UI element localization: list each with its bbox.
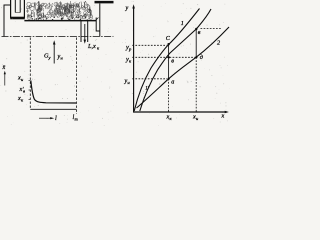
svg-text:в: в [23, 89, 25, 94]
svg-text:в: в [198, 29, 201, 36]
svg-text:р: р [128, 46, 132, 51]
svg-text:x: x [221, 113, 225, 120]
svg-text:x̄: x̄ [2, 64, 6, 71]
svg-text:y: y [125, 5, 129, 12]
svg-text:к: к [97, 46, 100, 51]
svg-text:к: к [21, 98, 24, 103]
svg-text:a: a [171, 79, 174, 86]
svg-text:C: C [166, 35, 171, 42]
svg-text:к: к [129, 58, 132, 63]
svg-text:в: в [171, 58, 174, 65]
svg-text:н: н [61, 56, 64, 61]
svg-text:2: 2 [217, 40, 220, 47]
svg-text:к: к [170, 116, 173, 121]
svg-text:н: н [128, 80, 131, 85]
svg-text:т: т [75, 117, 79, 122]
svg-text:у: у [48, 55, 51, 60]
svg-text:1: 1 [181, 20, 184, 27]
svg-text:L,x: L,x [87, 43, 96, 50]
svg-text:н: н [196, 116, 199, 121]
svg-text:l: l [55, 115, 57, 122]
svg-text:н: н [21, 77, 24, 82]
svg-text:д: д [200, 54, 203, 61]
